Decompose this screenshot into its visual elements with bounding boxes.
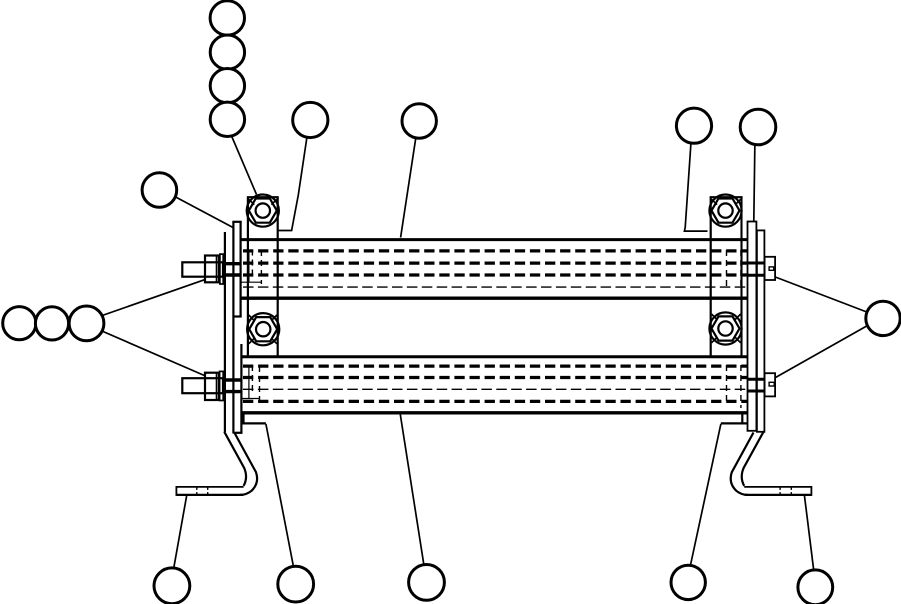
- left end plate mid cap: [233, 315, 241, 317]
- terminal T1 washer: [220, 254, 223, 284]
- bolt U4 hex nut: [712, 316, 740, 340]
- right terminal block lower: [765, 373, 776, 396]
- leader line bottom balloon 3: [400, 415, 425, 573]
- terminal T1 nut: [205, 256, 219, 283]
- tube 2 thin axis dashed line: [243, 388, 747, 390]
- left end plate line 1: [224, 232, 226, 432]
- terminal T2 stud bar lower: [223, 390, 241, 393]
- terminal T2 nut facet: [215, 373, 217, 400]
- terminal T1 nut facet: [215, 256, 217, 283]
- tube 2 left former thin lines: [242, 366, 260, 399]
- tube 2 right hidden stud dashes: [726, 365, 728, 402]
- right terminal lower stud bar b: [748, 390, 765, 393]
- right clamp column left edge: [710, 197, 712, 356]
- left end plate line 2: [232, 222, 234, 434]
- tube 2 dashed winding line c: [243, 400, 747, 403]
- left bracket foot bottom: [176, 494, 243, 496]
- left bracket foot end cap: [175, 486, 177, 496]
- leader line balloon A elbow: [278, 130, 308, 231]
- right top bolt corner ticks: [712, 199, 741, 205]
- callout balloon F1: [3, 307, 36, 340]
- leader line balloon G lower: [776, 323, 873, 378]
- left end plate line 3 upper: [240, 222, 242, 317]
- terminal T1 stud bar lower: [223, 273, 241, 276]
- terminal T1 stud bar upper: [223, 262, 241, 265]
- right middle bolt corner ticks: [712, 314, 741, 343]
- right end plate 2: [757, 230, 765, 431]
- callout balloon chain 3: [210, 69, 244, 103]
- leader line bottom balloon 1: [173, 496, 187, 575]
- left bracket foot top: [176, 486, 243, 488]
- leader line balloons F lower: [95, 328, 206, 376]
- right bracket outer edge: [731, 433, 754, 495]
- resistor tube 1 bottom edge: [241, 297, 748, 300]
- left end plate top cap: [232, 221, 241, 223]
- right bracket foot top: [744, 486, 811, 488]
- leader line bottom balloon 4: [689, 424, 721, 572]
- bolt U2 washer circle: [709, 195, 741, 227]
- left bracket inner edge: [224, 432, 246, 486]
- resistor tube 2 top edge: [243, 355, 748, 358]
- left clamp bottom step vertical: [242, 414, 244, 423]
- tube 1 thin axis dashed line: [243, 286, 747, 288]
- callout balloon C: [676, 108, 711, 143]
- tube 1 right hidden stud dashes: [726, 250, 728, 287]
- right clamp bottom step vertical: [741, 414, 743, 423]
- tube 2 dashed winding line b: [243, 376, 747, 379]
- resistor tube 2 bottom edge: [241, 411, 748, 414]
- bolt U1 hex nut: [249, 199, 277, 223]
- left clamp column left edge: [247, 197, 249, 356]
- leader line bottom balloon 5: [805, 496, 815, 575]
- leader line balloons F upper: [95, 280, 205, 318]
- callout balloon G: [866, 301, 900, 335]
- left middle bolt corner ticks: [249, 315, 277, 344]
- tube 1 dashed winding line c: [243, 273, 747, 276]
- leader line balloon D to right plates: [754, 135, 755, 222]
- left bracket outer edge: [234, 433, 257, 495]
- right terminal upper stud bar a: [748, 262, 765, 265]
- callout balloon bottom 1: [154, 568, 190, 604]
- leader line balloon B to tube 1: [401, 130, 417, 238]
- bolt U3 washer circle: [247, 313, 279, 345]
- right bracket foot bottom: [745, 494, 812, 496]
- left clamp bottom step: [243, 422, 266, 424]
- callout balloon A: [293, 102, 328, 137]
- bolt U4 shank circle: [718, 321, 732, 335]
- tube 2 dashed winding line a: [243, 364, 747, 367]
- terminal T2 nut: [205, 373, 219, 400]
- right terminal block upper: [765, 257, 776, 280]
- left end plate bottom cap: [233, 432, 242, 434]
- callout balloon F2: [35, 307, 68, 340]
- right terminal upper stud bar b: [748, 274, 765, 277]
- tube 2 left hidden stud dashes: [251, 365, 253, 394]
- callout balloon bottom 3: [409, 565, 445, 601]
- right terminal block upper notch: [769, 267, 774, 270]
- leader line to bolt U1 from balloon chain: [229, 130, 257, 195]
- right bracket foot end cap: [810, 486, 812, 496]
- callout balloon chain 4: [210, 102, 244, 136]
- bolt U2 hex nut: [712, 199, 740, 223]
- bolt U1 washer circle: [247, 195, 279, 227]
- bolt U3 shank circle: [256, 322, 270, 336]
- terminal T1 shaft: [182, 262, 223, 276]
- terminal T2 washer: [220, 371, 224, 400]
- resistor tube 1 top edge: [241, 238, 748, 241]
- callout balloon chain 1: [210, 1, 244, 35]
- terminal T2 shaft: [182, 378, 223, 393]
- right end plate 1: [748, 222, 757, 431]
- tube 1 left former thin lines: [242, 251, 262, 282]
- leader line bottom balloon 2: [266, 424, 295, 572]
- callout balloon bottom 4: [671, 565, 705, 599]
- callout balloon bottom 5: [798, 570, 833, 604]
- callout balloon B: [402, 104, 436, 138]
- bolt U3 hex nut: [249, 317, 277, 341]
- callout balloon chain 2: [210, 35, 244, 69]
- right clamp column right edge: [740, 197, 742, 356]
- right terminal block lower notch: [769, 382, 774, 386]
- left clamp column top cap: [247, 196, 279, 198]
- tube 1 dashed winding line b: [243, 261, 747, 264]
- terminal T2 stud bar upper: [223, 378, 241, 381]
- left end plate line 3 lower: [240, 344, 242, 433]
- right bracket inner edge: [742, 432, 764, 486]
- bolt U2 shank circle: [718, 203, 732, 217]
- tube 1 left hidden stud dashes: [251, 250, 253, 278]
- bolt U1 shank circle: [256, 203, 270, 217]
- leader line balloon C elbow: [684, 135, 707, 231]
- right clamp column top cap: [710, 196, 743, 198]
- tube 1 dashed winding line a: [243, 249, 747, 252]
- right bracket hole ticks: [780, 488, 791, 495]
- callout balloon bottom 2: [278, 566, 314, 602]
- right terminal lower stud bar a: [748, 378, 765, 381]
- left clamp column right edge: [277, 197, 279, 356]
- right clamp bottom step: [721, 422, 748, 424]
- left top bolt corner ticks: [249, 199, 277, 205]
- callout balloon E: [142, 173, 177, 208]
- callout balloon D: [740, 109, 776, 145]
- leader line balloon E to end plates: [170, 194, 233, 228]
- leader line balloon G upper: [775, 277, 872, 314]
- callout balloon F3: [69, 306, 104, 341]
- left bracket hole ticks: [197, 488, 208, 495]
- bolt U4 washer circle: [709, 312, 741, 344]
